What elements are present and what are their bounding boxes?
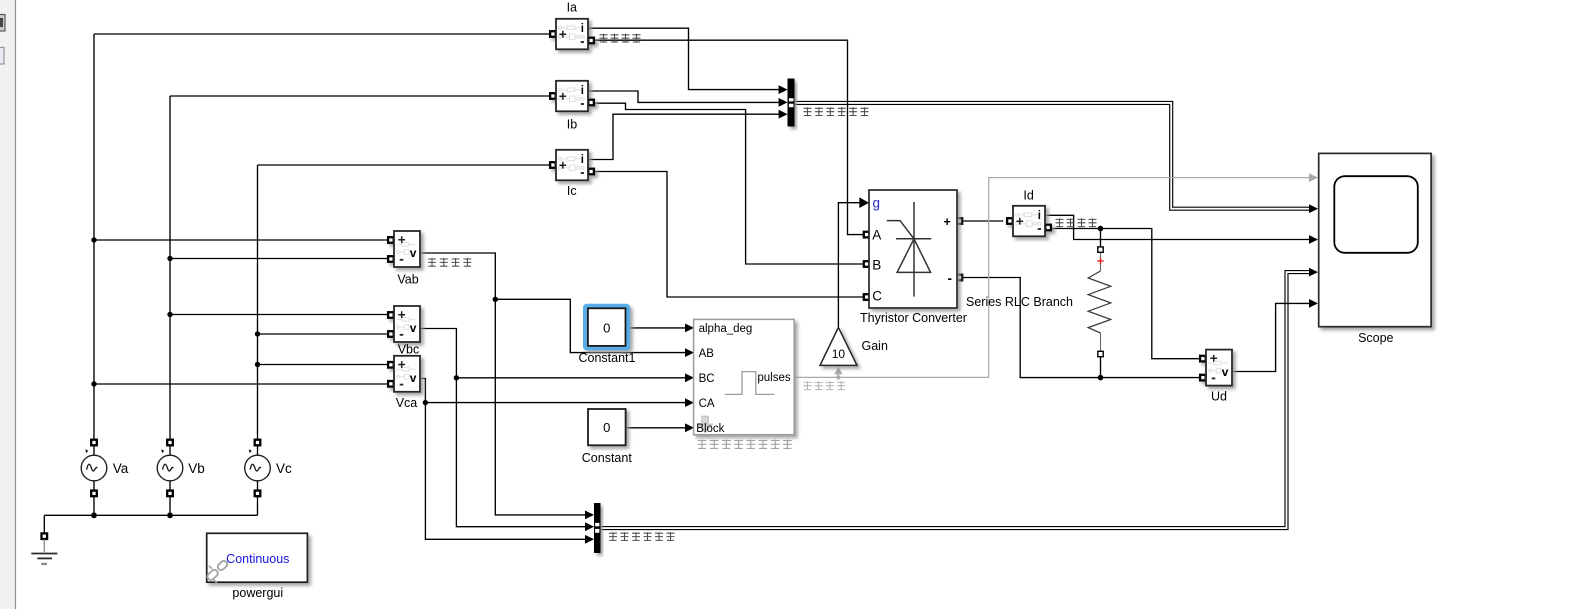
wire Ic - out to thyristor C xyxy=(595,172,864,298)
arrow into AB xyxy=(685,348,694,357)
wire Ic i out to mux1 in3 xyxy=(588,114,779,159)
arrow into voltage mux in2 xyxy=(585,522,594,531)
wire to ground xyxy=(43,515,45,533)
wire Vab branch to pulse generator AB xyxy=(495,299,686,352)
arrow into current mux in3 xyxy=(779,110,788,119)
wire phase A top run to Ia + xyxy=(94,33,550,35)
svg-text:Id: Id xyxy=(1023,189,1033,203)
wire gray branch up into Gain input xyxy=(837,374,839,378)
current measurement Ic xyxy=(550,150,594,181)
wire Vbc v out down to voltage mux in2 xyxy=(420,329,586,527)
annotation synchronized six-pulse generator label xyxy=(698,439,792,449)
powergui block xyxy=(206,533,307,583)
wire phase B to Vab - xyxy=(170,258,389,260)
mux three-phase source current xyxy=(788,79,795,127)
wire phase B top run to Ib + xyxy=(170,95,550,97)
svg-text:Ib: Ib xyxy=(567,118,577,132)
node neutral at Va xyxy=(91,512,97,518)
arrow into Scope in3 xyxy=(1309,235,1318,244)
voltage measurement Ud xyxy=(1200,350,1232,386)
annotation trigger signal (gray) at gain input xyxy=(804,381,846,390)
wire thyristor + to Id + xyxy=(962,220,1003,222)
voltage measurement Vca xyxy=(388,356,420,392)
annotation load-current (fu zai dian liu) at Ia xyxy=(600,34,641,43)
node phase A / Vab+ xyxy=(91,237,96,242)
pulse generator subsystem (six-pulse) xyxy=(694,319,795,435)
arrow into thyristor g xyxy=(859,197,869,208)
node Vbc branch xyxy=(454,375,459,380)
svg-text:10: 10 xyxy=(832,347,846,361)
svg-text:Continuous: Continuous xyxy=(226,552,289,566)
node phase B / Vab- xyxy=(167,256,172,261)
arrow into Scope in4 xyxy=(1309,268,1318,277)
svg-text:Thyristor Converter: Thyristor Converter xyxy=(860,311,967,325)
svg-text:CA: CA xyxy=(699,398,715,410)
svg-text:Series RLC Branch: Series RLC Branch xyxy=(966,295,1073,309)
node DC+ above resistor xyxy=(1098,226,1104,232)
wire Ia - out to thyristor A xyxy=(595,40,864,234)
wire Vca branch to pulse generator CA xyxy=(425,402,685,404)
wire resistor top connection xyxy=(1100,229,1102,248)
arrow into CA xyxy=(685,398,694,407)
arrow into voltage mux in1 xyxy=(585,511,594,520)
svg-text:Scope: Scope xyxy=(1358,331,1393,345)
wire Vb stubs xyxy=(169,445,171,515)
wire phase B to Vbc + xyxy=(170,314,389,316)
svg-text:pulses: pulses xyxy=(757,372,790,384)
svg-text:Vb: Vb xyxy=(188,461,205,476)
node neutral at Vb xyxy=(167,512,173,518)
voltage measurement Vbc xyxy=(388,306,420,342)
wire phase C vertical xyxy=(257,165,259,440)
wire Ib i out to mux1 in2 xyxy=(588,91,779,102)
node Vab branch xyxy=(493,297,498,302)
wire resistor bottom connection xyxy=(1100,357,1102,378)
arrow into current mux in2 xyxy=(779,98,788,107)
wire phase C to Vca + xyxy=(258,364,390,366)
svg-text:Vab: Vab xyxy=(397,273,418,287)
arrow into Block xyxy=(685,423,694,432)
svg-text:alpha_deg: alpha_deg xyxy=(699,323,753,335)
constant Constant1 (selected) xyxy=(583,304,630,350)
annotation load-voltage at Vab xyxy=(428,258,471,267)
svg-text:Vbc: Vbc xyxy=(398,343,420,357)
wire phase A to Vca - xyxy=(94,383,389,385)
svg-text:powergui: powergui xyxy=(232,586,283,600)
node DC- below resistor xyxy=(1098,375,1104,381)
svg-text:Ia: Ia xyxy=(567,0,577,14)
left palette sidebar xyxy=(0,0,16,609)
wire Id - to Ud + via right column xyxy=(1051,229,1200,359)
svg-text:-: - xyxy=(948,271,953,286)
svg-text:Vca: Vca xyxy=(396,396,418,410)
wire phase C top run to Ic + xyxy=(258,164,551,166)
svg-text:0: 0 xyxy=(603,420,610,435)
wire Vab v out down to voltage mux in1 xyxy=(420,253,586,515)
wire voltage-mux bus to Scope in4 (double line) xyxy=(601,271,1311,527)
wire Va stubs xyxy=(93,445,95,515)
wire phase A vertical xyxy=(93,34,95,440)
current measurement Ia xyxy=(550,19,594,50)
wire Id i out to Scope in3 xyxy=(1045,215,1310,239)
arrow into Scope in2 xyxy=(1309,204,1318,213)
source Va xyxy=(81,440,107,497)
svg-text:g: g xyxy=(873,196,881,211)
svg-text:Ud: Ud xyxy=(1211,390,1227,404)
resistor Series RLC Branch xyxy=(1088,247,1111,357)
wire Ia i out to mux1 in1 xyxy=(588,28,779,89)
wire phase A to Vab + xyxy=(94,239,389,241)
gain block (x10) xyxy=(820,327,857,365)
wire source neutral bus xyxy=(44,514,257,516)
svg-text:AB: AB xyxy=(699,348,715,360)
svg-text:Va: Va xyxy=(113,461,129,476)
wire thyristor - to RLC bottom and Ud - xyxy=(962,278,1200,378)
wire Gain output up to thyristor g xyxy=(838,203,860,328)
svg-text:Vc: Vc xyxy=(276,461,292,476)
annotation three-phase source current at current mux xyxy=(804,107,869,116)
svg-text:C: C xyxy=(872,289,882,304)
arrow into current mux in1 xyxy=(779,85,788,94)
wire Constant1 to alpha_deg xyxy=(630,327,686,329)
constant Constant xyxy=(588,409,626,445)
gray arrowhead into Gain xyxy=(834,366,842,374)
wire pulses output to Scope in1 (trigger signal, gray) xyxy=(794,178,1310,378)
annotation three-phase source voltage at voltage mux xyxy=(609,532,675,541)
node phase C / Vbc- xyxy=(255,331,260,336)
mux three-phase source voltage xyxy=(594,503,601,553)
svg-text:Constant: Constant xyxy=(582,451,633,465)
svg-text:Constant1: Constant1 xyxy=(579,351,636,365)
arrow into voltage mux in3 xyxy=(585,535,594,544)
node phase C / Vca+ xyxy=(255,362,260,367)
wire Ib - out to thyristor B xyxy=(595,103,864,264)
svg-text:+: + xyxy=(944,215,951,229)
scope block xyxy=(1319,153,1431,326)
current measurement Id xyxy=(1007,206,1051,237)
wire phase B vertical xyxy=(169,96,171,440)
source Vb xyxy=(157,440,183,497)
svg-text:BC: BC xyxy=(699,373,715,385)
arrow into alpha_deg xyxy=(685,324,694,333)
svg-text:B: B xyxy=(872,258,881,273)
svg-text:Block: Block xyxy=(696,423,724,435)
arrow into Scope in5 xyxy=(1309,299,1318,308)
svg-text:0: 0 xyxy=(603,321,610,336)
wire phase C to Vbc - xyxy=(258,333,390,335)
arrow into BC xyxy=(685,373,694,382)
svg-text:Ic: Ic xyxy=(567,184,577,198)
thyristor converter U1 xyxy=(864,190,962,308)
node phase A / Vca- xyxy=(91,381,96,386)
gray junction on trigger wire xyxy=(836,375,840,379)
svg-text:Gain: Gain xyxy=(862,339,888,353)
wire current-mux bus to Scope in2 (double line) xyxy=(795,101,1310,207)
ground xyxy=(31,533,57,564)
wire Vbc branch to pulse generator BC xyxy=(456,377,685,379)
voltage measurement Vab xyxy=(388,231,420,267)
gray arrow into Scope in1 xyxy=(1309,173,1318,182)
current measurement Ib xyxy=(550,81,594,112)
source Vc xyxy=(245,440,271,497)
annotation load-current at Id xyxy=(1056,218,1097,227)
svg-text:A: A xyxy=(872,227,881,242)
wire Vca v out down to voltage mux in3 xyxy=(420,379,586,540)
wire Ud v out to Scope in5 xyxy=(1232,303,1310,371)
wire Vc stubs xyxy=(257,445,259,515)
wire Constant to Block xyxy=(626,427,686,429)
node phase B / Vbc+ xyxy=(167,312,172,317)
node Vca branch xyxy=(423,400,428,405)
